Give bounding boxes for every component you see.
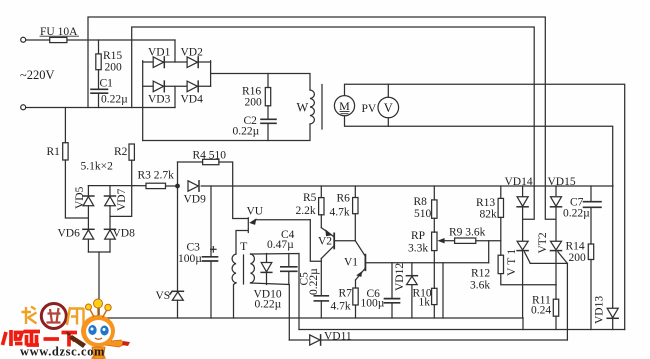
bridge VD1-VD4 box wires	[143, 61, 211, 63]
wire: meter loop bottom rail y=126.3	[345, 116, 613, 186]
diode VD8	[105, 228, 116, 230]
wire: bottom bus y=318	[99, 317, 523, 319]
wire: frame1 left vertical continues to neutral	[87, 40, 89, 108]
diode VD1	[153, 57, 163, 68]
svg-text:C1: C1	[100, 78, 114, 90]
svg-text:VD2: VD2	[181, 47, 204, 59]
svg-text:VD3: VD3	[148, 94, 171, 106]
resistor R11	[553, 299, 558, 316]
resistor R13	[500, 186, 502, 198]
svg-text:3.3k: 3.3k	[408, 243, 428, 255]
wire: meter loop top rail y=84.3	[345, 84, 625, 329]
diode VD14	[522, 186, 524, 197]
svg-text:VD11: VD11	[324, 331, 352, 343]
svg-text:~220V: ~220V	[20, 68, 55, 82]
resistor R2	[129, 144, 134, 160]
wire: DC+ rail y=73.5 from bridge to W	[211, 74, 310, 91]
resistor R9	[455, 238, 476, 243]
wire: vertical x=443	[442, 263, 444, 318]
capacitor C5	[314, 295, 328, 297]
transistor V1	[364, 255, 366, 271]
svg-text:VD9: VD9	[184, 194, 207, 206]
capacitor C4	[288, 254, 290, 267]
svg-text:R6: R6	[337, 193, 351, 205]
thyristor VT2	[551, 241, 562, 250]
svg-text:V2: V2	[318, 236, 332, 248]
diode VD4	[187, 81, 197, 92]
transistor VU (UJT)	[247, 218, 249, 233]
wire: mains live wire y=40	[26, 39, 175, 41]
svg-text:1k: 1k	[419, 297, 431, 309]
wire: VU emitter to C5 node	[310, 220, 321, 261]
resistor R14	[588, 244, 593, 260]
diode VD7	[109, 186, 111, 196]
brand chars	[22, 307, 84, 327]
svg-text:4.7k: 4.7k	[330, 207, 350, 219]
capacitor C6	[391, 263, 393, 299]
svg-text:0.22µ: 0.22µ	[255, 299, 282, 311]
svg-text:RP: RP	[411, 230, 425, 242]
svg-text:2.2k: 2.2k	[296, 205, 316, 217]
svg-text:R8: R8	[414, 196, 428, 208]
node: junction dot	[175, 184, 180, 189]
wire: corner to base wire	[488, 241, 490, 263]
resistor R15	[98, 40, 100, 54]
svg-text:V1: V1	[344, 257, 358, 269]
capacitor C3	[210, 186, 212, 257]
svg-text:VD14: VD14	[505, 176, 533, 188]
svg-text:R1: R1	[47, 146, 61, 158]
svg-text:R15: R15	[103, 50, 122, 62]
resistor R8	[433, 186, 435, 200]
svg-text:R2: R2	[114, 146, 128, 158]
svg-text:R13: R13	[476, 197, 495, 209]
zener VS	[177, 186, 179, 291]
inductor W winding	[310, 90, 314, 124]
svg-text:3.6k: 3.6k	[470, 280, 490, 292]
wire: DC- rail y=140.5 from bridge to W	[143, 124, 310, 141]
svg-text:R3 2.7k: R3 2.7k	[138, 170, 175, 182]
diode VD13	[612, 186, 614, 308]
wire: bridge bottom rail	[88, 251, 110, 253]
diode VD6	[83, 228, 94, 230]
svg-text:0.24: 0.24	[531, 305, 551, 317]
svg-text:100µ: 100µ	[178, 253, 202, 265]
diode VD12	[411, 263, 413, 276]
wire: gate riser	[530, 263, 567, 340]
svg-text:VT1: VT1	[506, 246, 518, 276]
terminal: neutral input	[21, 105, 26, 110]
svg-text:R5: R5	[303, 192, 317, 204]
transformer T secondary	[251, 254, 255, 283]
thyristor VT1	[517, 241, 528, 250]
diode VD2	[187, 57, 197, 68]
capacitor C1	[91, 88, 108, 90]
svg-text:www.dzsc.com: www.dzsc.com	[20, 345, 105, 359]
svg-text:VS: VS	[156, 290, 171, 302]
svg-text:510: 510	[414, 208, 432, 220]
resistor R5	[319, 198, 324, 215]
svg-text:W: W	[297, 101, 309, 115]
diode VD11	[310, 335, 320, 345]
potentiometer RP	[432, 232, 437, 251]
resistor R6	[353, 198, 358, 214]
svg-text:R4 510: R4 510	[193, 150, 227, 162]
fuse FU	[50, 37, 67, 42]
svg-text:200: 200	[569, 252, 587, 264]
svg-text:VD8: VD8	[113, 228, 136, 240]
svg-text:PV: PV	[362, 103, 377, 115]
svg-text:V: V	[384, 101, 393, 115]
capacitor C2	[261, 118, 276, 120]
svg-text:R12: R12	[471, 268, 490, 280]
svg-text:M: M	[339, 99, 350, 113]
wire: mains neutral wire y=107.5	[26, 107, 175, 109]
voltmeter PV	[378, 97, 399, 118]
capacitor C7	[590, 186, 592, 202]
diode VD15	[555, 186, 557, 197]
transformer core	[243, 255, 245, 284]
magnifier ring	[41, 304, 66, 329]
wire: bus jog down	[522, 318, 524, 330]
diode VD10	[266, 254, 268, 263]
wire: secondary loop	[251, 254, 300, 330]
svg-text:0.22µ: 0.22µ	[101, 94, 128, 106]
svg-text:VD6: VD6	[58, 228, 81, 240]
svg-text:VD4: VD4	[181, 94, 204, 106]
resistor R3	[146, 183, 166, 188]
watermark	[3, 299, 131, 359]
wire: VD11 rail y=340	[289, 339, 567, 341]
terminal: live input	[21, 37, 26, 42]
resistor R10	[432, 288, 437, 304]
resistor R4 loop	[177, 162, 179, 184]
svg-text:R9 3.6k: R9 3.6k	[449, 227, 486, 239]
transformer T primary	[232, 254, 236, 283]
capacitor C3 polarity plus	[211, 248, 216, 250]
svg-text:0.22µ: 0.22µ	[563, 208, 590, 220]
svg-text:VT2: VT2	[537, 232, 549, 253]
svg-text:VD12: VD12	[394, 263, 406, 291]
wire: V2 collector / C5 line	[320, 259, 322, 296]
svg-text:0.22µ: 0.22µ	[308, 268, 320, 295]
wire: outer frame top line y=17	[88, 17, 556, 219]
diode VD9	[188, 181, 198, 191]
svg-text:100µ: 100µ	[361, 298, 385, 310]
wire: bridge output to bus	[98, 252, 100, 318]
wire: main positive wire y=186	[133, 185, 147, 187]
svg-text:R14: R14	[566, 241, 585, 253]
transistor V2	[333, 233, 335, 248]
svg-text:R7: R7	[339, 288, 353, 300]
motor M	[334, 96, 354, 116]
resistor R16	[267, 74, 269, 88]
svg-text:VD13: VD13	[594, 296, 606, 324]
svg-text:VD1: VD1	[148, 47, 171, 59]
svg-text:T: T	[240, 239, 248, 253]
svg-text:0.22µ: 0.22µ	[233, 126, 260, 138]
svg-text:200: 200	[105, 62, 123, 74]
wire: inner frame top line y=27	[132, 27, 535, 219]
svg-text:4.7k: 4.7k	[331, 301, 351, 313]
resistor R1	[64, 108, 66, 143]
svg-text:FU 10A: FU 10A	[40, 26, 78, 38]
svg-text:0.47µ: 0.47µ	[267, 239, 294, 251]
resistor R7	[355, 280, 357, 288]
wire: cathode rail y=185.6	[88, 185, 132, 187]
mascot	[66, 299, 130, 359]
motor M symbol	[339, 99, 393, 115]
resistor R12	[498, 255, 503, 273]
svg-text:200: 200	[245, 97, 263, 109]
svg-text:C3: C3	[187, 242, 201, 254]
core line	[321, 85, 323, 130]
svg-text:VD15: VD15	[548, 176, 576, 188]
svg-text:VD5: VD5	[74, 186, 86, 209]
wire: lower rail y=329.5	[299, 329, 625, 331]
svg-text:VD7: VD7	[116, 188, 128, 211]
svg-text:82k: 82k	[480, 209, 498, 221]
diode VD3	[153, 81, 163, 92]
diode VD5	[87, 186, 89, 196]
svg-text:5.1k×2: 5.1k×2	[81, 161, 114, 173]
svg-text:VU: VU	[247, 206, 264, 218]
